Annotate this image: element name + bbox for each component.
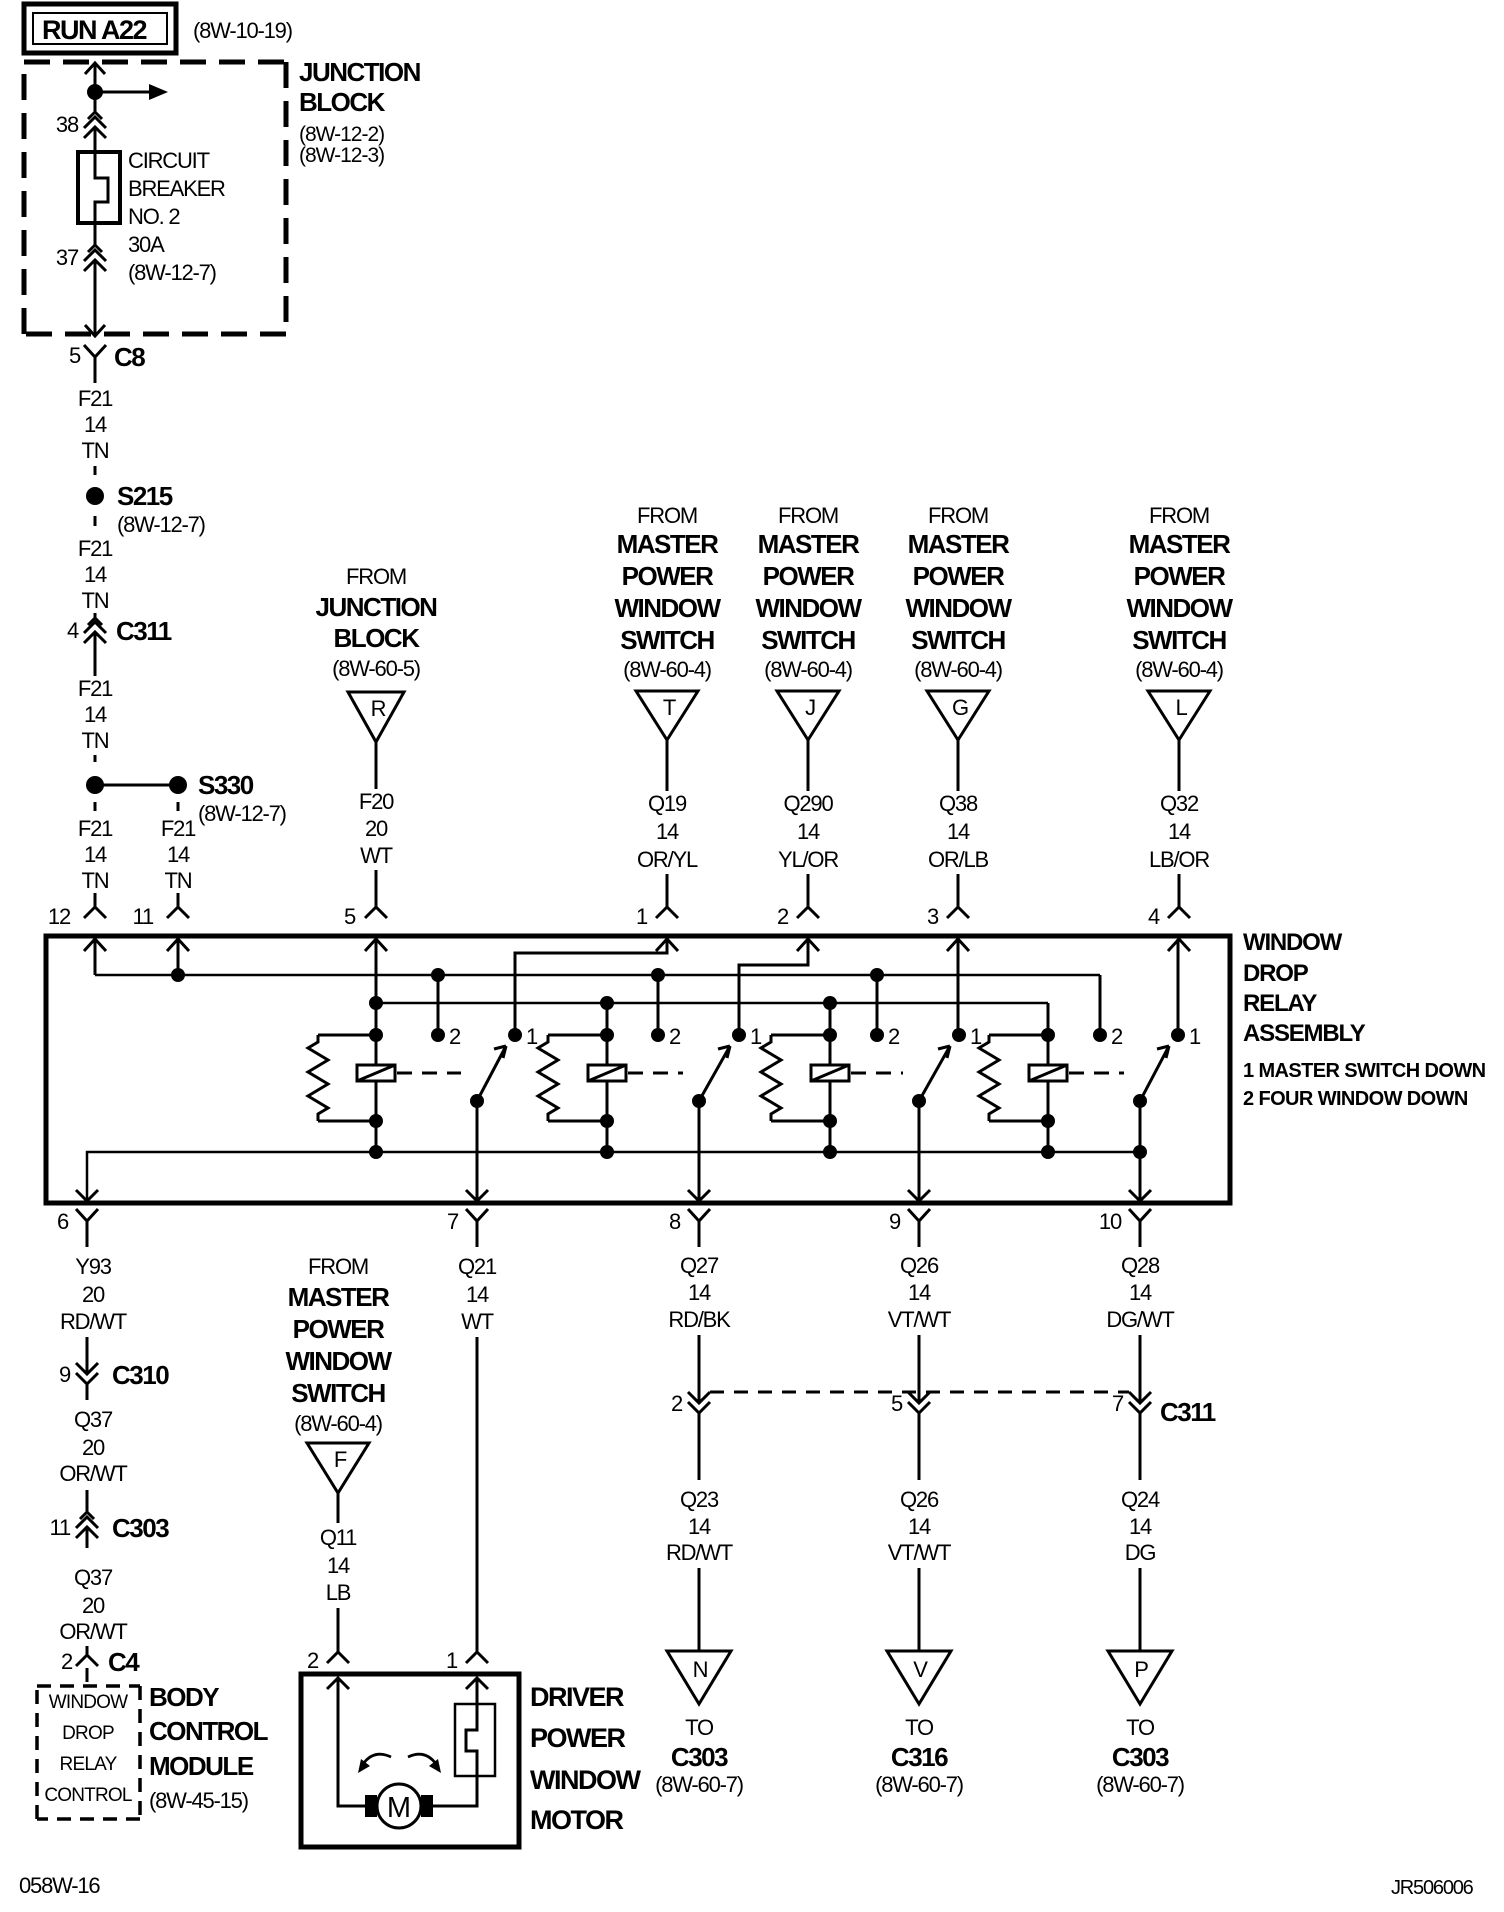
svg-text:(8W-60-7): (8W-60-7) bbox=[875, 1772, 963, 1797]
svg-text:TO: TO bbox=[685, 1715, 714, 1740]
wire bbox=[94, 516, 97, 526]
relay 2 actuation dashed link bbox=[628, 1072, 683, 1075]
wire label Q26 14 VT/WT bbox=[888, 1487, 951, 1565]
svg-text:MODULE: MODULE bbox=[149, 1751, 254, 1781]
relay 4 switch pivot bbox=[1133, 1094, 1147, 1108]
switch column F labels bbox=[285, 1254, 392, 1436]
wire bbox=[177, 802, 180, 811]
svg-text:14: 14 bbox=[327, 1553, 350, 1578]
pin 9 exit chevron bbox=[908, 1190, 930, 1201]
junction pin 11 on bus bbox=[171, 968, 185, 982]
relay 1 NO contact terminal 1 bbox=[508, 1024, 538, 1049]
wire label Q32 14 LB/OR bbox=[1149, 791, 1209, 872]
svg-text:RELAY: RELAY bbox=[1243, 990, 1317, 1017]
wire bbox=[957, 874, 960, 907]
chevron into junction block bbox=[85, 63, 105, 74]
wire pin 5 coil feed bbox=[375, 939, 378, 1035]
svg-text:(8W-60-4): (8W-60-4) bbox=[1135, 657, 1223, 682]
wire bbox=[1139, 1413, 1142, 1480]
svg-text:(8W-12-7): (8W-12-7) bbox=[198, 801, 286, 826]
wire label Q27 14 RD/BK bbox=[668, 1253, 731, 1332]
svg-text:1: 1 bbox=[750, 1024, 762, 1049]
pin 10 exit chevron bbox=[1129, 1190, 1151, 1201]
relay 2 coil bbox=[588, 1003, 626, 1152]
svg-text:14: 14 bbox=[84, 562, 107, 587]
wire bbox=[375, 870, 378, 907]
svg-text:CONTROL: CONTROL bbox=[149, 1716, 269, 1746]
svg-text:11: 11 bbox=[133, 904, 154, 929]
junction coil rail relay 2 bbox=[600, 996, 614, 1010]
svg-text:Q26: Q26 bbox=[900, 1253, 939, 1278]
connector motor pin 1 bbox=[446, 1648, 488, 1673]
wire pin 12 to bus bbox=[94, 939, 97, 975]
svg-text:WT: WT bbox=[360, 843, 393, 868]
svg-text:F20: F20 bbox=[359, 789, 394, 814]
svg-text:1: 1 bbox=[446, 1648, 458, 1673]
svg-text:4: 4 bbox=[1148, 904, 1160, 929]
window drop relay control dashed box bbox=[37, 1686, 140, 1819]
svg-text:(8W-45-15): (8W-45-15) bbox=[149, 1788, 248, 1813]
relay 4 actuation dashed link bbox=[1069, 1072, 1124, 1075]
svg-text:7: 7 bbox=[447, 1209, 459, 1234]
svg-text:ASSEMBLY: ASSEMBLY bbox=[1243, 1020, 1366, 1047]
svg-text:Q37: Q37 bbox=[74, 1565, 113, 1590]
connector C311 pin 2 bbox=[671, 1391, 710, 1416]
connector C311 pin 4 bbox=[67, 616, 172, 646]
wire label Q37 20 OR/WT bbox=[59, 1407, 127, 1486]
svg-text:LB/OR: LB/OR bbox=[1149, 847, 1209, 872]
wire pin 11 to bus bbox=[177, 939, 180, 975]
wire pin 3 to relay 3 NO contact bbox=[957, 939, 960, 1035]
svg-text:LB: LB bbox=[326, 1580, 351, 1605]
svg-text:38: 38 bbox=[56, 112, 79, 137]
svg-text:20: 20 bbox=[82, 1282, 105, 1307]
svg-text:NO. 2: NO. 2 bbox=[128, 204, 180, 229]
wire pin 4 to relay 4 NO contact bbox=[1177, 939, 1180, 1035]
svg-text:058W-16: 058W-16 bbox=[19, 1873, 100, 1898]
connector motor pin 2 bbox=[307, 1648, 349, 1673]
svg-text:4: 4 bbox=[67, 618, 79, 643]
bus rail from pins 12/11 to NC contacts bbox=[95, 974, 1100, 977]
svg-text:14: 14 bbox=[797, 819, 820, 844]
svg-text:VT/WT: VT/WT bbox=[888, 1540, 951, 1565]
svg-text:DG: DG bbox=[1125, 1540, 1156, 1565]
svg-text:14: 14 bbox=[84, 702, 107, 727]
svg-text:C311: C311 bbox=[116, 616, 172, 646]
connector pin 6 below relay assembly bbox=[57, 1209, 98, 1247]
relay 4 ground rail junction bbox=[1041, 1145, 1055, 1159]
wire bbox=[698, 1413, 701, 1480]
svg-text:14: 14 bbox=[84, 412, 107, 437]
switch column L labels bbox=[1126, 503, 1233, 682]
junction bus relay 2 NC bbox=[651, 968, 665, 982]
splice S215 bbox=[86, 481, 173, 511]
svg-text:37: 37 bbox=[56, 245, 79, 270]
svg-text:Y93: Y93 bbox=[75, 1254, 112, 1279]
coil ground rail to pin 6 bbox=[87, 1152, 1140, 1199]
svg-text:YL/OR: YL/OR bbox=[778, 847, 838, 872]
svg-text:F21: F21 bbox=[161, 816, 196, 841]
svg-text:9: 9 bbox=[59, 1362, 71, 1387]
junction ground rail relay 4 common bbox=[1133, 1145, 1147, 1159]
svg-text:14: 14 bbox=[947, 819, 970, 844]
wire label F21 14 TN bbox=[78, 676, 113, 753]
junction block dashed boundary bbox=[24, 62, 286, 334]
relay 1 coil top junction bbox=[369, 1028, 383, 1042]
connector pin 10 below relay assembly bbox=[1099, 1209, 1151, 1247]
svg-text:14: 14 bbox=[688, 1280, 711, 1305]
svg-text:POWER: POWER bbox=[763, 561, 855, 591]
wire bus to relay 2 NC contact bbox=[657, 975, 660, 1035]
svg-text:14: 14 bbox=[908, 1280, 931, 1305]
svg-text:L: L bbox=[1175, 695, 1187, 720]
wire bbox=[94, 802, 97, 811]
wire pin 2 to relay 2 NO contact bbox=[739, 939, 808, 1035]
body control module label bbox=[149, 1682, 269, 1813]
wire label Q290 14 YL/OR bbox=[778, 791, 838, 872]
pin 2 entry chevron bbox=[797, 939, 819, 951]
svg-text:F21: F21 bbox=[78, 386, 113, 411]
svg-text:2: 2 bbox=[449, 1024, 461, 1049]
off-page connector triangle P bbox=[1108, 1651, 1172, 1704]
svg-text:(8W-12-2): (8W-12-2) bbox=[299, 123, 384, 146]
off-page connector triangle R bbox=[348, 692, 404, 742]
svg-text:SWITCH: SWITCH bbox=[911, 625, 1005, 655]
svg-text:RELAY: RELAY bbox=[60, 1754, 118, 1775]
svg-text:FROM: FROM bbox=[346, 564, 406, 589]
wire label Q21 14 WT bbox=[458, 1254, 497, 1334]
relay assembly title bbox=[1243, 929, 1486, 1110]
relay 4 NO contact terminal 1 bbox=[1171, 1024, 1201, 1049]
svg-text:SWITCH: SWITCH bbox=[761, 625, 855, 655]
off-page connector triangle F bbox=[307, 1443, 369, 1493]
svg-text:11: 11 bbox=[50, 1515, 71, 1540]
wire label F21 14 TN bbox=[78, 816, 113, 893]
wire label F21 14 TN bbox=[78, 536, 113, 613]
off-page connector triangle G bbox=[927, 691, 989, 740]
relay 3 NC contact terminal 2 bbox=[870, 1024, 900, 1049]
wire bbox=[698, 1335, 701, 1402]
relay 2 NC contact terminal 2 bbox=[651, 1024, 681, 1049]
relay 2 ground rail junction bbox=[600, 1145, 614, 1159]
relay 4 coil bbox=[1029, 1003, 1067, 1152]
wire label Q26 14 VT/WT bbox=[888, 1253, 951, 1332]
off-page connector triangle L bbox=[1148, 691, 1210, 740]
wire bbox=[666, 874, 669, 907]
svg-text:VT/WT: VT/WT bbox=[888, 1307, 951, 1332]
connector pin 1 into relay assembly bbox=[636, 904, 678, 929]
svg-text:DG/WT: DG/WT bbox=[1106, 1307, 1174, 1332]
svg-text:30A: 30A bbox=[128, 232, 165, 257]
svg-text:J: J bbox=[805, 695, 815, 720]
connector pin 2 into relay assembly bbox=[777, 904, 819, 929]
pin 5 entry chevron bbox=[365, 939, 387, 951]
svg-text:R: R bbox=[371, 696, 386, 721]
svg-text:C316: C316 bbox=[891, 1742, 948, 1772]
svg-text:Q24: Q24 bbox=[1121, 1487, 1160, 1512]
wire label F20 20 WT bbox=[359, 789, 394, 868]
svg-text:POWER: POWER bbox=[1134, 561, 1226, 591]
svg-text:2: 2 bbox=[61, 1649, 73, 1674]
svg-text:BLOCK: BLOCK bbox=[334, 623, 421, 653]
svg-text:OR/LB: OR/LB bbox=[928, 847, 989, 872]
pin 11 entry chevron bbox=[167, 939, 189, 951]
svg-text:(8W-10-19): (8W-10-19) bbox=[193, 18, 292, 43]
relay 3 NO contact terminal 1 bbox=[952, 1024, 982, 1049]
svg-text:2: 2 bbox=[777, 904, 789, 929]
wire bbox=[94, 260, 97, 336]
svg-text:DROP: DROP bbox=[1243, 960, 1309, 987]
pin 8 exit chevron bbox=[688, 1190, 710, 1201]
off-page connector triangle J bbox=[777, 691, 839, 740]
svg-text:F21: F21 bbox=[78, 816, 113, 841]
svg-text:14: 14 bbox=[84, 842, 107, 867]
wire bbox=[337, 1493, 340, 1523]
motor rotation arrow right bbox=[408, 1754, 441, 1773]
connector C310 pin 9 bbox=[59, 1360, 169, 1390]
connector C4 pin 2 bbox=[61, 1647, 140, 1682]
connector C8 at junction block boundary bbox=[69, 325, 145, 383]
circuit breaker label bbox=[128, 148, 225, 285]
motor pin 1 entry chevron bbox=[466, 1678, 488, 1689]
svg-text:Q32: Q32 bbox=[1160, 791, 1199, 816]
pin 6 exit chevron bbox=[76, 1190, 98, 1201]
svg-text:MASTER: MASTER bbox=[1129, 529, 1232, 559]
relay 3 ground rail junction bbox=[823, 1145, 837, 1159]
svg-text:FROM: FROM bbox=[308, 1254, 368, 1279]
wire label Q28 14 DG/WT bbox=[1106, 1253, 1174, 1332]
relay 3 coil top junction bbox=[823, 1028, 837, 1042]
pin 12 entry chevron bbox=[84, 939, 106, 951]
connector C311 dashed tie line bbox=[710, 1391, 1129, 1394]
svg-text:1: 1 bbox=[526, 1024, 538, 1049]
relay 1 resistor bbox=[308, 1035, 376, 1121]
svg-text:JR506006: JR506006 bbox=[1391, 1877, 1474, 1899]
wire bbox=[1178, 740, 1181, 791]
pin 4 entry chevron bbox=[1168, 939, 1190, 951]
wire bus to relay 4 NC contact bbox=[1099, 975, 1102, 1035]
wire bus to relay 3 NC contact bbox=[876, 975, 879, 1035]
svg-text:FROM: FROM bbox=[928, 503, 988, 528]
svg-text:T: T bbox=[663, 695, 676, 720]
connector pin 7 below relay assembly bbox=[447, 1209, 488, 1247]
svg-text:TN: TN bbox=[82, 438, 109, 463]
svg-text:POWER: POWER bbox=[530, 1723, 626, 1753]
destination label TO C303 bbox=[655, 1715, 743, 1797]
svg-text:14: 14 bbox=[656, 819, 679, 844]
connector pin 12 into relay assembly bbox=[48, 893, 106, 929]
svg-text:(8W-60-7): (8W-60-7) bbox=[655, 1772, 743, 1797]
svg-text:CONTROL: CONTROL bbox=[44, 1785, 132, 1806]
connector pin 5 into relay assembly bbox=[344, 904, 387, 929]
wire pin 7 to motor bbox=[476, 1337, 479, 1652]
svg-text:MASTER: MASTER bbox=[908, 529, 1011, 559]
svg-text:20: 20 bbox=[82, 1593, 105, 1618]
svg-text:5: 5 bbox=[344, 904, 356, 929]
svg-text:S330: S330 bbox=[198, 770, 254, 800]
svg-text:Q38: Q38 bbox=[939, 791, 978, 816]
relay 3 coil bbox=[811, 1003, 849, 1152]
svg-text:14: 14 bbox=[1168, 819, 1191, 844]
motor brush terminal left bbox=[365, 1795, 377, 1817]
motor brush terminal right bbox=[421, 1795, 433, 1817]
svg-text:C303: C303 bbox=[1112, 1742, 1169, 1772]
svg-text:G: G bbox=[952, 695, 968, 720]
branch arrow to right bbox=[95, 84, 168, 100]
ignition feed box RUN A22 bbox=[24, 4, 176, 53]
svg-text:Q19: Q19 bbox=[648, 791, 687, 816]
svg-text:C8: C8 bbox=[114, 342, 145, 372]
svg-text:FROM: FROM bbox=[1149, 503, 1209, 528]
connector pin 37 (junction block cavity) bbox=[56, 245, 106, 271]
svg-text:14: 14 bbox=[1129, 1514, 1152, 1539]
connector pin 4 into relay assembly bbox=[1148, 904, 1190, 929]
pin 7 exit chevron bbox=[466, 1190, 488, 1201]
wire bbox=[86, 1490, 89, 1512]
relay 1 actuation dashed link bbox=[397, 1072, 461, 1075]
connector C311 pin 7 bbox=[1112, 1391, 1216, 1427]
pin 1 entry chevron bbox=[656, 939, 678, 951]
off-page connector triangle V bbox=[887, 1651, 951, 1704]
junction coil rail relay 3 bbox=[823, 996, 837, 1010]
wire bbox=[94, 755, 97, 762]
circuit breaker No.2 symbol bbox=[78, 152, 120, 223]
off-page connector triangle N bbox=[667, 1651, 731, 1704]
wire label Y93 20 RD/WT bbox=[60, 1254, 127, 1334]
svg-text:(8W-60-4): (8W-60-4) bbox=[623, 657, 711, 682]
svg-text:RD/WT: RD/WT bbox=[60, 1309, 127, 1334]
relay 4 switch arm bbox=[1140, 1046, 1169, 1101]
svg-text:20: 20 bbox=[82, 1435, 105, 1460]
wire bbox=[94, 613, 97, 618]
wire bbox=[1139, 1568, 1142, 1651]
relay 3 switch arm bbox=[919, 1046, 950, 1101]
svg-text:WINDOW: WINDOW bbox=[614, 593, 721, 623]
svg-text:(8W-60-4): (8W-60-4) bbox=[294, 1411, 382, 1436]
svg-text:MASTER: MASTER bbox=[288, 1282, 391, 1312]
svg-text:Q37: Q37 bbox=[74, 1407, 113, 1432]
svg-text:20: 20 bbox=[365, 816, 388, 841]
svg-text:5: 5 bbox=[69, 343, 81, 368]
svg-text:1 MASTER SWITCH DOWN: 1 MASTER SWITCH DOWN bbox=[1243, 1060, 1486, 1082]
relay 1 switch arm bbox=[477, 1046, 506, 1101]
svg-text:M: M bbox=[387, 1792, 411, 1824]
coil feed rail bbox=[376, 1002, 1048, 1005]
wire bbox=[337, 1608, 340, 1652]
svg-text:TN: TN bbox=[165, 868, 192, 893]
svg-text:POWER: POWER bbox=[622, 561, 714, 591]
svg-text:F21: F21 bbox=[78, 536, 113, 561]
svg-text:OR/WT: OR/WT bbox=[59, 1461, 127, 1486]
svg-text:C4: C4 bbox=[108, 1647, 140, 1677]
wire bbox=[1139, 1335, 1142, 1402]
feed column from junction block (R) bbox=[316, 564, 438, 681]
svg-text:2: 2 bbox=[307, 1648, 319, 1673]
svg-text:3: 3 bbox=[927, 904, 939, 929]
wire bbox=[698, 1568, 701, 1651]
connector C303 pin 11 bbox=[50, 1512, 170, 1543]
wire label Q23 14 RD/WT bbox=[666, 1487, 733, 1565]
wire label Q19 14 OR/YL bbox=[637, 791, 698, 872]
relay 1 ground rail junction bbox=[369, 1145, 383, 1159]
svg-text:N: N bbox=[693, 1657, 708, 1682]
relay 4 resistor bbox=[979, 1035, 1048, 1121]
svg-text:FROM: FROM bbox=[778, 503, 838, 528]
svg-text:(8W-12-7): (8W-12-7) bbox=[117, 512, 205, 537]
relay 4 coil bottom junction bbox=[1041, 1114, 1055, 1128]
switch column T labels bbox=[614, 503, 721, 682]
destination label TO C303 bbox=[1096, 1715, 1184, 1797]
relay 3 actuation dashed link bbox=[851, 1072, 903, 1075]
relay 4 NC contact terminal 2 bbox=[1093, 1024, 1123, 1049]
relay 3 switch pivot bbox=[912, 1094, 926, 1108]
svg-text:POWER: POWER bbox=[913, 561, 1005, 591]
relay 2 switch arm bbox=[699, 1046, 730, 1101]
svg-text:CIRCUIT: CIRCUIT bbox=[128, 148, 210, 173]
pin 3 entry chevron bbox=[947, 939, 969, 951]
destination label TO C316 bbox=[875, 1715, 963, 1797]
wire bbox=[957, 740, 960, 791]
off-page connector triangle T bbox=[636, 691, 698, 740]
junction bus relay 3 NC bbox=[870, 968, 884, 982]
svg-text:5: 5 bbox=[891, 1391, 903, 1416]
relay 1 NC contact terminal 2 bbox=[431, 1024, 461, 1049]
wire label F21 14 TN bbox=[78, 386, 113, 463]
svg-text:TN: TN bbox=[82, 588, 109, 613]
wire bbox=[375, 742, 378, 789]
connector pin 11 into relay assembly bbox=[133, 893, 189, 929]
svg-text:6: 6 bbox=[57, 1209, 69, 1234]
wire relay 4 common to pin 10 bbox=[1139, 1101, 1142, 1199]
svg-text:MASTER: MASTER bbox=[617, 529, 720, 559]
wire relay 1 common to pin 7 bbox=[476, 1101, 479, 1199]
switch column J labels bbox=[755, 503, 862, 682]
wire bbox=[94, 63, 97, 112]
svg-text:14: 14 bbox=[167, 842, 190, 867]
wire bbox=[1178, 874, 1181, 907]
wire bbox=[918, 1413, 921, 1480]
svg-text:WINDOW: WINDOW bbox=[530, 1765, 641, 1795]
svg-text:TN: TN bbox=[82, 728, 109, 753]
svg-text:P: P bbox=[1134, 1657, 1148, 1682]
wire bbox=[94, 127, 97, 152]
svg-text:WINDOW: WINDOW bbox=[905, 593, 1012, 623]
svg-text:(8W-60-4): (8W-60-4) bbox=[764, 657, 852, 682]
svg-text:Q21: Q21 bbox=[458, 1254, 497, 1279]
svg-text:BODY: BODY bbox=[149, 1682, 219, 1712]
wire label F21 14 TN bbox=[161, 816, 196, 893]
junction coil rail relay 1 bbox=[369, 996, 383, 1010]
svg-text:F: F bbox=[334, 1447, 347, 1472]
wire bbox=[807, 740, 810, 791]
svg-text:2 FOUR WINDOW DOWN: 2 FOUR WINDOW DOWN bbox=[1243, 1088, 1468, 1110]
svg-text:14: 14 bbox=[908, 1514, 931, 1539]
svg-text:POWER: POWER bbox=[293, 1314, 385, 1344]
wire relay 2 common to pin 8 bbox=[698, 1101, 701, 1199]
svg-text:14: 14 bbox=[688, 1514, 711, 1539]
svg-text:S215: S215 bbox=[117, 481, 173, 511]
svg-text:WT: WT bbox=[461, 1309, 494, 1334]
motor self-resetting breaker bbox=[433, 1678, 495, 1806]
svg-text:(8W-12-7): (8W-12-7) bbox=[128, 260, 216, 285]
svg-text:WINDOW: WINDOW bbox=[285, 1346, 392, 1376]
svg-text:WINDOW: WINDOW bbox=[1243, 929, 1343, 956]
svg-text:RUN A22: RUN A22 bbox=[42, 15, 147, 45]
motor rotation arrow left bbox=[358, 1754, 391, 1773]
wire bbox=[86, 1646, 89, 1655]
relay 1 coil bbox=[357, 1035, 395, 1152]
wire motor left lead bbox=[338, 1678, 366, 1806]
